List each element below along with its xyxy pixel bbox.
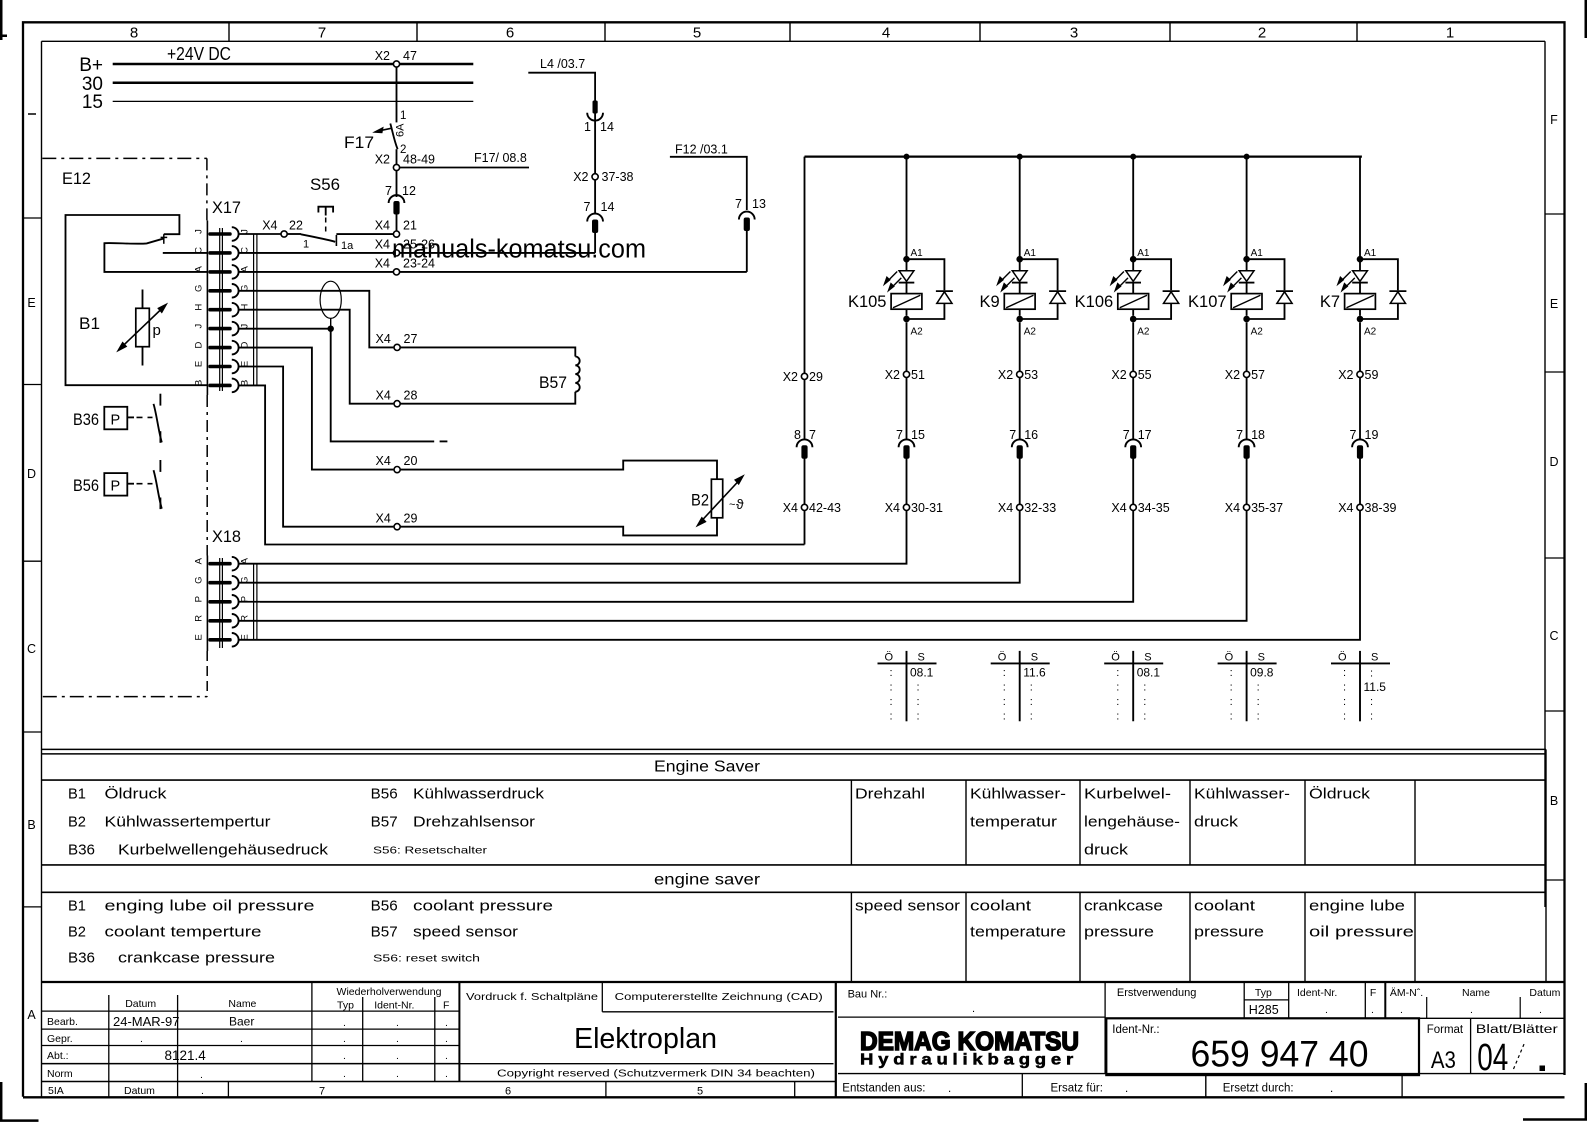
relay K105 LED indicator [899,271,914,282]
svg-text:A1: A1 [1251,248,1264,259]
svg-text:B56: B56 [371,898,398,915]
svg-text:Ö: Ö [1111,652,1120,664]
svg-text:32-33: 32-33 [1024,501,1056,515]
svg-text:20: 20 [404,454,418,468]
connector X17 pin D7 [208,346,231,350]
svg-text:ÄM-Nˆ.: ÄM-Nˆ. [1390,987,1423,999]
svg-text:X18: X18 [212,527,241,546]
svg-text:Ö: Ö [885,652,894,664]
svg-text:X2: X2 [1338,368,1353,382]
relay K7 freewheeling diode [1360,259,1398,290]
svg-text:28: 28 [404,388,418,402]
svg-text:B1: B1 [79,315,100,333]
E12 wire to pin C [163,252,208,254]
svg-text:30-31: 30-31 [911,501,943,515]
svg-text:11.6: 11.6 [1023,666,1046,680]
svg-text:K9: K9 [980,293,1000,311]
svg-text:X4: X4 [885,501,900,515]
svg-text:A2: A2 [1024,327,1037,338]
svg-text::: : [1370,696,1373,708]
svg-text:17: 17 [1138,428,1152,442]
svg-text:B2: B2 [68,814,86,831]
svg-text:.: . [343,1033,346,1045]
svg-text:J: J [240,324,251,329]
svg-text:A2: A2 [1251,327,1264,338]
svg-text:K105: K105 [848,293,887,311]
svg-text:X4: X4 [376,511,391,525]
svg-text:Baer: Baer [229,1015,254,1029]
svg-text:B+: B+ [79,55,103,76]
svg-text:34-35: 34-35 [1138,501,1170,515]
svg-text::: : [1030,696,1033,708]
svg-text:X4: X4 [376,332,391,346]
svg-text:Bearb.: Bearb. [47,1016,78,1028]
svg-text:14: 14 [600,120,614,134]
svg-text:X2: X2 [998,368,1013,382]
svg-text:H285: H285 [1249,1003,1279,1017]
svg-text:K106: K106 [1075,293,1114,311]
svg-text:S: S [1258,652,1265,664]
svg-text:Kurbelwellengehäusedruck: Kurbelwellengehäusedruck [118,842,329,859]
svg-text:K107: K107 [1188,293,1227,311]
svg-text:Wiederholverwendung: Wiederholverwendung [337,986,442,998]
svg-text:Ersetzt durch:: Ersetzt durch: [1223,1083,1294,1095]
svg-text:7: 7 [318,25,326,42]
svg-text:C: C [1549,629,1558,643]
svg-text:Gepr.: Gepr. [47,1033,73,1045]
junction shield drain [330,318,332,328]
svg-text:42-43: 42-43 [809,501,841,515]
bus junction [904,154,910,160]
svg-text::: : [1003,682,1006,694]
svg-text:pressure: pressure [1194,924,1264,941]
svg-text:Kühlwasserdruck: Kühlwasserdruck [413,786,545,803]
contact table for K107 [1246,651,1248,721]
svg-text::: : [917,682,920,694]
svg-text:48-49: 48-49 [403,153,435,167]
svg-text::: : [1343,696,1346,708]
relay K105 [906,157,908,257]
connector X17 pin C2 [208,251,231,255]
legend table frame [42,748,1547,750]
svg-text:.: . [1125,1083,1128,1095]
svg-text:11.5: 11.5 [1364,680,1387,694]
svg-text:Typ: Typ [1255,987,1272,999]
contact table for K106 [1132,651,1134,721]
svg-text:.: . [396,1033,399,1045]
svg-text:X4: X4 [1338,501,1353,515]
svg-text::: : [1143,682,1146,694]
svg-text:engine lube: engine lube [1309,898,1405,915]
svg-text:Datum: Datum [124,1085,155,1097]
connector X18 pin P [208,600,231,604]
svg-text:08.1: 08.1 [1137,666,1161,680]
E12 internal switch arm [104,238,208,272]
svg-text:X4: X4 [998,501,1013,515]
svg-text:A1: A1 [911,248,924,259]
svg-text:coolant pressure: coolant pressure [413,898,553,915]
connector X17 pin H5 [208,308,231,312]
wire X17-J2 to shield junction [239,328,331,330]
connector X17 pin J6 [208,327,231,331]
svg-text:13: 13 [752,197,766,211]
svg-text:A: A [27,1008,36,1022]
bus junction [1244,154,1250,160]
svg-text::: : [1116,682,1119,694]
wire X17-C row [239,252,394,254]
svg-text:X4: X4 [375,219,390,233]
svg-text:Entstanden aus:: Entstanden aus: [842,1083,925,1095]
connector plug 7|12 [396,171,398,197]
relay K107 LED indicator [1239,271,1254,282]
svg-text:.: . [445,1033,448,1045]
bus junction [1130,154,1136,160]
svg-text:B: B [1550,794,1558,808]
wire to X18 row [260,511,1020,583]
connector plug 1|14 [593,101,598,114]
svg-text:Engine Saver: Engine Saver [654,759,760,776]
svg-text:.: . [200,1069,203,1081]
svg-text:59: 59 [1365,368,1379,382]
svg-text:.: . [445,1050,448,1062]
corner crop marks [0,0,3,40]
E12 internal fixed contact [163,234,165,244]
svg-text::: : [1343,667,1346,679]
svg-text:temperatur: temperatur [970,814,1057,831]
svg-text:.: . [343,1068,346,1080]
svg-text:Ersatz für:: Ersatz für: [1051,1083,1103,1095]
svg-text:6A: 6A [395,123,407,137]
shield oval [320,281,341,318]
relay K106 [1132,157,1134,257]
svg-text:G: G [194,577,205,584]
svg-text:X2: X2 [1225,368,1240,382]
svg-text:.: . [445,1068,448,1080]
svg-text:.: . [972,1003,975,1015]
svg-text:pressure: pressure [1084,924,1154,941]
contact table for K9 [1019,651,1021,721]
svg-text:B36: B36 [68,950,95,967]
svg-text:crankcase pressure: crankcase pressure [118,950,275,967]
svg-text:P: P [194,596,205,602]
svg-text:X17: X17 [212,198,241,217]
svg-text:.: . [240,1033,243,1045]
svg-text::: : [1343,682,1346,694]
svg-text:A: A [194,557,205,564]
svg-text:D: D [194,342,205,349]
svg-text::: : [890,667,893,679]
svg-text:Kühlwasser-: Kühlwasser- [970,786,1066,803]
svg-text::: : [890,696,893,708]
svg-text:Copyright reserved (Schutzverm: Copyright reserved (Schutzvermerk DIN 34… [497,1068,815,1080]
svg-text:F: F [1370,987,1376,999]
relay K7 terminal A2 [1357,316,1364,323]
svg-text:Datum: Datum [1529,987,1560,999]
relay K7 [1359,157,1361,257]
svg-text:E: E [194,361,205,367]
connector X17 pin E8 [208,365,231,369]
svg-text:Norm: Norm [47,1068,73,1080]
svg-text:1: 1 [584,120,591,134]
svg-text:29: 29 [404,511,418,525]
svg-text:speed sensor: speed sensor [855,898,960,915]
svg-text:Kühlwasser-: Kühlwasser- [1194,786,1290,803]
svg-text:.: . [140,1033,143,1045]
svg-text:ϑ: ϑ [736,496,744,512]
relay K105 freewheeling diode [907,259,945,290]
svg-text:1: 1 [400,110,406,122]
svg-text::: : [890,711,893,723]
svg-text:5: 5 [697,1086,703,1098]
svg-text:Bau Nr.:: Bau Nr.: [848,989,888,1001]
relay supply bus [805,156,1362,158]
svg-text:Ö: Ö [998,652,1007,664]
svg-text:24-MAR-97: 24-MAR-97 [113,1014,179,1029]
svg-text:+24V DC: +24V DC [167,44,231,64]
svg-text:15: 15 [82,92,103,113]
svg-text:B56: B56 [371,786,398,803]
svg-text:6: 6 [505,1086,511,1098]
svg-text:F17: F17 [344,133,374,152]
svg-text:E: E [27,296,35,310]
svg-text:04: 04 [1477,1037,1508,1079]
svg-text:Datum: Datum [125,998,156,1010]
svg-text:37-38: 37-38 [602,170,634,184]
svg-text::: : [1230,696,1233,708]
svg-text::: : [1116,696,1119,708]
svg-text::: : [1370,668,1373,680]
border frame inner [42,40,1546,42]
svg-text:Name: Name [1462,987,1490,999]
svg-text:X4: X4 [783,501,798,515]
svg-text:D: D [1549,455,1558,469]
wire X17-G to X4 27 [239,291,394,348]
wire to X18 row [260,511,1247,621]
wire X17-E to X4 29 [239,367,394,527]
svg-text:druck: druck [1084,842,1129,859]
svg-text:Vordruck f. Schaltpläne: Vordruck f. Schaltpläne [466,991,598,1003]
svg-text:8121.4: 8121.4 [165,1048,207,1063]
connector X17 pin A3 [208,270,231,274]
svg-text:.: . [396,1068,399,1080]
svg-text:7: 7 [809,428,816,442]
relay K9 LED indicator [1012,271,1027,282]
svg-text:.: . [1400,1004,1403,1016]
svg-text:Öldruck: Öldruck [1309,785,1371,803]
svg-text:R: R [194,615,205,622]
svg-text::: : [1143,711,1146,723]
svg-text:F17/ 08.8: F17/ 08.8 [474,151,527,165]
svg-text:Drehzahlsensor: Drehzahlsensor [413,814,535,831]
svg-text:.: . [343,1017,346,1029]
svg-text::: : [1230,667,1233,679]
svg-text:09.8: 09.8 [1250,666,1274,680]
svg-text:S: S [918,652,925,664]
connector X18 pin R [208,619,231,623]
svg-text:L4 /03.7: L4 /03.7 [540,57,585,71]
wire to X18 row [260,511,907,564]
svg-text:7: 7 [584,200,591,214]
svg-text:B: B [27,818,35,832]
svg-text:.: . [1325,1004,1328,1016]
svg-text:57: 57 [1251,368,1265,382]
relay K9 freewheeling diode [1020,259,1058,290]
svg-text:~: ~ [729,499,735,511]
svg-text:Ident-Nr.: Ident-Nr. [1297,987,1337,999]
svg-text:F: F [1550,113,1558,127]
svg-text:coolant temperture: coolant temperture [105,924,262,941]
svg-text::: : [917,711,920,723]
svg-text::: : [890,682,893,694]
svg-text:X4: X4 [375,238,390,252]
svg-text:Blatt/Blätter: Blatt/Blätter [1476,1024,1558,1036]
svg-text:Ö: Ö [1225,652,1234,664]
svg-text:47: 47 [403,49,417,63]
svg-text:S56: reset switch: S56: reset switch [373,953,480,965]
svg-text:J: J [194,324,205,329]
svg-text:B36: B36 [73,411,99,429]
svg-text:.: . [948,1083,951,1095]
E12 internal circuit outline [66,215,209,385]
svg-text:A2: A2 [1364,327,1377,338]
svg-text:F: F [443,1000,449,1012]
svg-text:35-37: 35-37 [1251,501,1283,515]
wire X17-A row [239,271,394,273]
svg-text:A2: A2 [1137,327,1150,338]
svg-text:Abt.:: Abt.: [47,1050,69,1062]
svg-text:7: 7 [735,197,742,211]
svg-text:Typ: Typ [337,1000,354,1012]
svg-text::: : [1257,682,1260,694]
relay K7 LED indicator [1353,271,1368,282]
svg-text:E12: E12 [62,169,91,188]
svg-text:Kurbelwel-: Kurbelwel- [1084,786,1171,803]
relay branch X2 29 (leftmost) [804,157,806,374]
svg-text:55: 55 [1138,368,1152,382]
connector X18 pin E [208,638,231,642]
svg-text::: : [1003,711,1006,723]
svg-text::: : [917,696,920,708]
svg-text:oil pressure: oil pressure [1309,924,1414,941]
relay K105 terminal A2 [903,316,910,323]
svg-text::: : [1143,696,1146,708]
svg-text:X2: X2 [783,370,798,384]
svg-text:enging lube oil pressure: enging lube oil pressure [105,898,315,915]
svg-text:B1: B1 [68,898,86,915]
svg-text:manuals-komatsu.com: manuals-komatsu.com [392,236,646,264]
svg-text::: : [1230,682,1233,694]
wire X17-D to X4 20 [239,348,394,470]
svg-text:p: p [153,322,161,339]
contact table for K7 [1359,651,1361,721]
svg-text:X4: X4 [376,454,391,468]
svg-text:1: 1 [1446,25,1454,42]
svg-text:3: 3 [1070,25,1078,42]
svg-text:X4: X4 [1111,501,1126,515]
svg-text:B56: B56 [73,477,99,495]
svg-text:G: G [194,285,205,292]
svg-text:B2: B2 [68,924,86,941]
svg-text:A1: A1 [1364,248,1377,259]
svg-text:Format: Format [1427,1024,1464,1036]
svg-text:D: D [27,467,36,481]
wire X17-H to X4 28 [239,310,394,404]
svg-text:5: 5 [693,25,701,42]
svg-text:Drehzahl: Drehzahl [855,786,925,803]
svg-text:B57: B57 [539,374,567,392]
left ruler band [23,217,42,219]
svg-text::: : [1343,711,1346,723]
right ruler band [1545,213,1565,215]
wire to X18 row [260,511,1133,602]
svg-text:14: 14 [601,200,615,214]
svg-text::: : [1116,711,1119,723]
svg-text:2: 2 [1258,25,1266,42]
svg-text:A1: A1 [1137,248,1150,259]
svg-text:A1: A1 [1024,248,1037,259]
svg-text::: : [1030,711,1033,723]
Ident-Nr box [1106,1018,1419,1075]
svg-text:15: 15 [911,428,925,442]
svg-text:B: B [194,380,205,386]
temperature sensor B2 [400,461,717,480]
svg-text:Hydraulikbagger: Hydraulikbagger [860,1052,1078,1069]
svg-text:19: 19 [1365,428,1379,442]
relay K106 LED indicator [1126,271,1141,282]
svg-text:08.1: 08.1 [910,666,934,680]
svg-text:F12 /03.1: F12 /03.1 [675,143,728,157]
svg-text:engine saver: engine saver [654,872,760,889]
svg-text:38-39: 38-39 [1365,501,1397,515]
svg-text:X2: X2 [1111,368,1126,382]
svg-text:6: 6 [506,25,514,42]
relay K9 [1019,157,1021,257]
svg-text:B36: B36 [68,842,95,859]
svg-text:.: . [396,1050,399,1062]
svg-text:X4: X4 [376,388,391,402]
svg-text:coolant: coolant [1194,898,1256,915]
svg-text:7: 7 [319,1086,325,1098]
svg-text:4: 4 [882,25,890,42]
svg-text:lengehäuse-: lengehäuse- [1084,814,1180,831]
svg-text:Ident-Nr.:: Ident-Nr.: [1112,1024,1159,1036]
svg-text:X4: X4 [262,219,277,233]
svg-text:C: C [27,642,36,656]
svg-text::: : [1116,667,1119,679]
relay K9 terminal A2 [1016,316,1023,323]
svg-text:1: 1 [303,239,309,251]
Erstverwendung header [1105,1017,1563,1019]
svg-text:Öldruck: Öldruck [105,785,168,803]
svg-text:.: . [1470,1004,1473,1016]
svg-text:X4: X4 [1225,501,1240,515]
svg-text:Name: Name [228,998,256,1010]
relay K106 terminal A2 [1130,316,1137,323]
svg-text:S: S [1031,652,1038,664]
bus junction [1017,154,1023,160]
svg-text:B1: B1 [68,786,86,803]
svg-text:H: H [194,304,205,311]
svg-text:speed sensor: speed sensor [413,924,518,941]
svg-text:druck: druck [1194,814,1239,831]
svg-text:.: . [343,1050,346,1062]
svg-text:1a: 1a [341,240,354,252]
svg-text:X2: X2 [375,49,390,63]
svg-text:S56: S56 [310,175,340,194]
svg-text:.: . [1539,1004,1542,1016]
svg-text:coolant: coolant [970,898,1032,915]
svg-text:X4: X4 [375,257,390,271]
